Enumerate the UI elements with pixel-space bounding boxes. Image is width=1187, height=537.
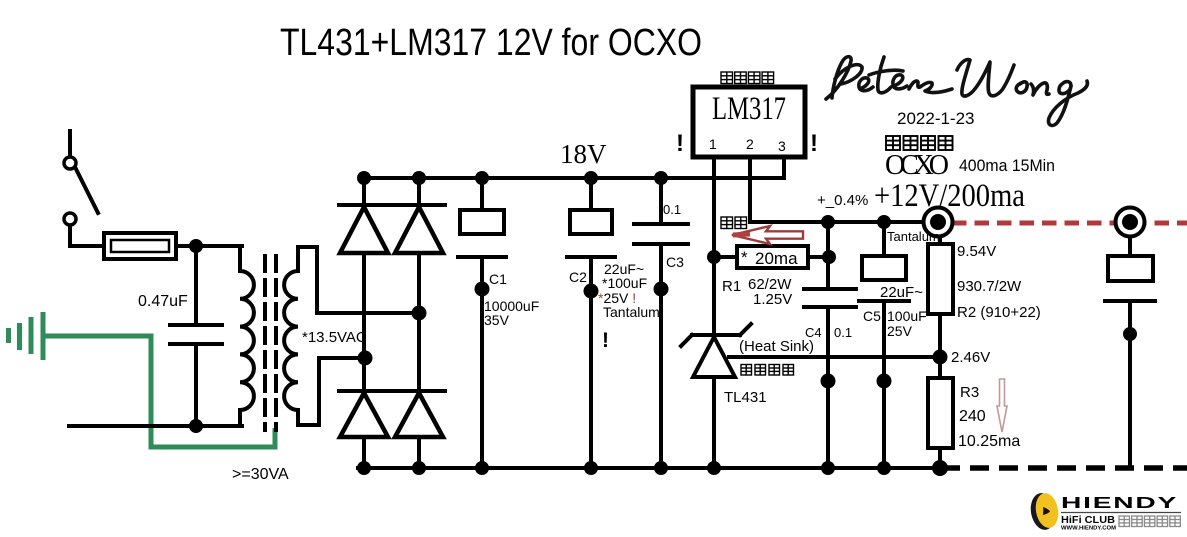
svg-text:0.47uF: 0.47uF bbox=[138, 293, 188, 310]
svg-text:400ma 15Min: 400ma 15Min bbox=[959, 157, 1055, 175]
svg-text:C5: C5 bbox=[863, 308, 881, 324]
junction R2/R3/ref node 2.46V bbox=[933, 350, 948, 365]
svg-text:HiFi CLUB: HiFi CLUB bbox=[1061, 515, 1115, 526]
wire fuse to node A bbox=[176, 244, 196, 248]
svg-text:R1: R1 bbox=[722, 278, 741, 295]
wire R2 bottom to R3 top bbox=[938, 314, 942, 378]
wire secondary top lead bbox=[298, 247, 419, 313]
junction ADJ/R1/TL431 bbox=[707, 250, 721, 264]
wire +12V output rail bbox=[750, 220, 938, 224]
capacitor C1 leads bbox=[480, 178, 484, 468]
svg-text:25V: 25V bbox=[887, 323, 913, 339]
svg-text:+12V/200ma: +12V/200ma bbox=[874, 178, 1025, 214]
capacitor output plates bbox=[1105, 256, 1155, 301]
wire C5 column bbox=[882, 222, 886, 468]
svg-text:TL431+LM317 12V for OCXO: TL431+LM317 12V for OCXO bbox=[280, 22, 702, 64]
junction rail C1 bbox=[475, 171, 489, 185]
wire TL431 ref to divider bbox=[729, 355, 940, 359]
capacitor C2 plates bbox=[567, 210, 615, 257]
resistor R1 body bbox=[737, 246, 808, 268]
svg-text:!: ! bbox=[602, 329, 609, 352]
junction ground C3 bbox=[654, 461, 668, 475]
svg-text:TL431: TL431 bbox=[724, 389, 767, 406]
svg-text:100uF: 100uF bbox=[887, 308, 927, 324]
signature Peter Wong bbox=[826, 57, 1087, 126]
wire TL431 anode to ground bbox=[712, 377, 716, 468]
capacitor C1 plates bbox=[458, 210, 506, 257]
capacitor 0.47uF top lead bbox=[194, 246, 198, 325]
wire R3 bottom lead bbox=[938, 448, 942, 468]
resistor R3 body bbox=[928, 378, 953, 448]
wire R1 left lead bbox=[714, 255, 737, 259]
junction rail C2 bbox=[584, 171, 598, 185]
terminal load side bbox=[1116, 208, 1145, 237]
svg-text:0.1: 0.1 bbox=[834, 325, 852, 340]
junction R1 right bbox=[822, 250, 836, 264]
svg-text:*13.5VAC: *13.5VAC bbox=[302, 329, 367, 346]
junction ground TL431 bbox=[707, 461, 721, 475]
junction neutral/cap bbox=[189, 419, 203, 433]
svg-text:!: ! bbox=[676, 130, 684, 157]
current direction arrow bbox=[732, 226, 803, 244]
svg-text:2: 2 bbox=[746, 136, 754, 152]
svg-text:240: 240 bbox=[959, 408, 986, 425]
svg-text:0.1: 0.1 bbox=[663, 202, 681, 217]
svg-text:Tantalum: Tantalum bbox=[603, 304, 660, 320]
junction 12V rail C4 bbox=[821, 215, 835, 229]
junction ground D4 bbox=[412, 461, 426, 475]
wire 18V top rail bbox=[364, 176, 784, 180]
svg-text:10.25ma: 10.25ma bbox=[958, 433, 1020, 450]
wire green earth to transformer shield bbox=[45, 336, 275, 447]
svg-text:!: ! bbox=[810, 130, 818, 157]
transformer T1 primary winding bbox=[240, 246, 254, 426]
svg-text:1.25V: 1.25V bbox=[753, 291, 792, 308]
junction ground D3 bbox=[357, 461, 371, 475]
svg-text:+_0.4%: +_0.4% bbox=[817, 192, 868, 209]
junction 12V rail C5 bbox=[877, 215, 891, 229]
svg-text:18V: 18V bbox=[560, 139, 607, 169]
svg-text:35V: 35V bbox=[484, 312, 510, 328]
wire bottom ground rail bbox=[358, 466, 941, 470]
svg-text:R2 (910+22): R2 (910+22) bbox=[957, 304, 1041, 321]
capacitor C3 leads bbox=[659, 178, 663, 468]
wire bridge right column bbox=[417, 178, 421, 468]
svg-text:2.46V: 2.46V bbox=[951, 349, 990, 366]
svg-text:C3: C3 bbox=[666, 254, 684, 270]
dot C2 lead bbox=[584, 284, 599, 299]
dot C1 lead bbox=[475, 282, 490, 297]
transformer T1 secondary winding bbox=[284, 247, 298, 425]
junction rail D1 bbox=[357, 171, 371, 185]
svg-text:20ma: 20ma bbox=[755, 249, 798, 268]
wire +12V red dashed bbox=[952, 221, 1187, 226]
dot C5 lead bbox=[877, 374, 892, 389]
wire R1 right lead bbox=[808, 255, 829, 259]
shunt regulator TL431 bbox=[681, 324, 751, 377]
capacitor C3 plates bbox=[634, 224, 688, 244]
svg-text:*100uF: *100uF bbox=[602, 275, 647, 291]
diode D2 bbox=[394, 205, 445, 253]
junction ground C2 bbox=[584, 461, 598, 475]
junction ground C4 bbox=[821, 461, 835, 475]
resistor R2 body bbox=[928, 244, 953, 314]
junction ground C5 bbox=[877, 461, 891, 475]
capacitor 0.47uF plates bbox=[170, 325, 222, 344]
heatsink note above LM317 bbox=[721, 72, 774, 84]
wire AC neutral to primary bottom bbox=[69, 424, 242, 428]
terminal +12V output bbox=[924, 208, 953, 237]
junction secondary top lead bbox=[412, 306, 427, 321]
capacitor C5 plates bbox=[859, 256, 909, 301]
switch S1 bbox=[64, 157, 98, 225]
wire output cap column bbox=[1128, 236, 1132, 467]
wire R2 top lead bbox=[938, 236, 942, 244]
dot C4 lead bbox=[821, 374, 836, 389]
dot output cap lead bbox=[1123, 327, 1137, 341]
wire ground rail dashed right bbox=[941, 465, 1187, 471]
svg-text:9.54V: 9.54V bbox=[957, 243, 996, 260]
svg-text:(Heat Sink): (Heat Sink) bbox=[739, 338, 814, 355]
junction fuse/cap/primary bbox=[189, 239, 203, 253]
wire C4 column bbox=[826, 222, 830, 468]
transformer core bbox=[265, 256, 276, 430]
junction rail D2 bbox=[412, 171, 426, 185]
wire LM317 pin1 ADJ down bbox=[712, 157, 716, 335]
wire bridge left column bbox=[362, 178, 366, 468]
svg-text:R3: R3 bbox=[960, 384, 979, 401]
heatsink note TL431 bbox=[741, 365, 794, 376]
diode D3 bbox=[339, 391, 390, 437]
diode D1 bbox=[339, 205, 390, 253]
junction rail C3 bbox=[654, 171, 668, 185]
svg-text:Tantalum: Tantalum bbox=[887, 229, 940, 244]
svg-text:C1: C1 bbox=[489, 271, 507, 287]
wire switch to fuse bbox=[70, 226, 104, 246]
fuse F1 bbox=[104, 233, 176, 259]
svg-text:3: 3 bbox=[778, 138, 786, 154]
svg-text:*: * bbox=[741, 248, 748, 267]
svg-text:C2: C2 bbox=[569, 269, 587, 285]
regulator U1 LM317 body bbox=[693, 87, 805, 157]
diode D4 bbox=[394, 391, 445, 437]
junction secondary bottom lead bbox=[358, 351, 373, 366]
precision regulator note bbox=[886, 136, 953, 150]
current arrow down at R3 bbox=[997, 379, 1007, 432]
svg-text:>=30VA: >=30VA bbox=[232, 466, 289, 483]
wire node A to transformer primary top bbox=[196, 244, 242, 248]
svg-text:22uF~: 22uF~ bbox=[880, 284, 923, 301]
capacitor C4 plates bbox=[804, 289, 856, 307]
earth ground green bbox=[9, 312, 44, 360]
dot C3 lead bbox=[654, 282, 669, 297]
svg-text:1: 1 bbox=[709, 136, 717, 152]
svg-text:930.7/2W: 930.7/2W bbox=[957, 278, 1022, 295]
wire LM317 pin2 OUT down bbox=[748, 157, 752, 222]
wire AC live input stub bbox=[68, 131, 72, 156]
junction ground R3 bbox=[932, 460, 948, 476]
logo HIENDY bbox=[1028, 491, 1181, 532]
svg-text:2022-1-23: 2022-1-23 bbox=[897, 109, 975, 128]
svg-text:OCXO: OCXO bbox=[885, 150, 949, 181]
capacitor 0.47uF bottom lead bbox=[194, 344, 198, 426]
svg-text:LM317: LM317 bbox=[712, 91, 786, 127]
junction ground C1 bbox=[475, 461, 489, 475]
capacitor C2 leads bbox=[589, 178, 593, 468]
wire secondary bottom lead bbox=[298, 358, 365, 425]
constant current note bbox=[721, 217, 747, 229]
svg-text:HIENDY: HIENDY bbox=[1061, 495, 1178, 512]
wire LM317 pin3 IN down bbox=[782, 157, 786, 178]
svg-text:WWW.HIENDY.COM: WWW.HIENDY.COM bbox=[1061, 526, 1116, 532]
